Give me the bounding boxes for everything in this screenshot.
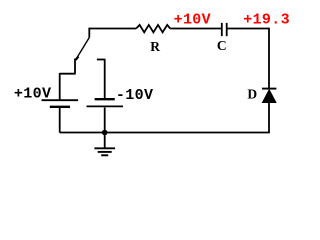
capacitor C	[222, 23, 227, 36]
label +10V (battery)	[14, 85, 51, 102]
diode D	[262, 89, 276, 103]
node voltage +19.3 (red)	[243, 11, 290, 28]
resistor R	[136, 25, 170, 32]
svg-text:C: C	[217, 38, 227, 53]
wire capacitor to top-right corner	[228, 28, 270, 30]
wire resistor to capacitor	[170, 28, 221, 30]
svg-text:+10V: +10V	[14, 85, 51, 102]
svg-text:+19.3: +19.3	[243, 11, 290, 28]
battery +10V	[42, 100, 79, 132]
switch arm	[76, 38, 90, 60]
label D	[247, 87, 257, 102]
label -10V (battery)	[116, 87, 153, 104]
ground	[94, 133, 115, 156]
wire throw 1 to +10V battery	[60, 73, 76, 100]
svg-text:+10V: +10V	[174, 11, 211, 28]
junction dot at ground node	[102, 130, 108, 136]
svg-text:D: D	[247, 87, 257, 102]
svg-text:-10V: -10V	[116, 87, 153, 104]
wire top from switch to resistor	[89, 28, 136, 30]
wire throw 2 to -10V battery	[104, 59, 106, 99]
wire right side down to diode	[268, 28, 270, 88]
label C	[217, 38, 227, 53]
switch common wire from top	[88, 28, 90, 38]
node voltage +10V (red)	[174, 11, 211, 28]
switch throw contact 1	[74, 59, 76, 74]
svg-text:R: R	[150, 39, 160, 54]
wire diode to bottom-right corner	[268, 103, 270, 133]
label R	[150, 39, 160, 54]
switch throw contact 2	[97, 59, 105, 61]
battery -10V	[87, 99, 124, 132]
wire bottom	[60, 132, 270, 134]
